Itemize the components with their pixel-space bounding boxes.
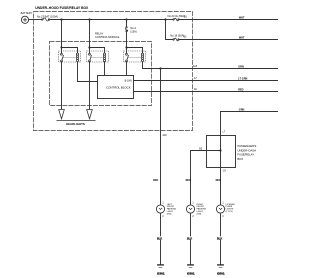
relay control module enclosure <box>50 41 152 105</box>
wire battery to fuse <box>29 18 42 20</box>
svg-text:(5W): (5W) <box>197 213 202 215</box>
svg-text:WHT: WHT <box>239 37 245 40</box>
node bus junction 2 <box>88 18 90 20</box>
lamp right front parking light <box>186 205 194 213</box>
ground G301 left <box>157 264 164 266</box>
svg-text:(15A): (15A) <box>130 30 136 34</box>
wire lamp1 to ground <box>159 213 161 264</box>
svg-text:RED: RED <box>153 179 158 182</box>
fuse No.23 BAT (100A) <box>42 19 43 20</box>
svg-text:BLK: BLK <box>157 237 162 240</box>
wire contact1 down <box>61 61 63 109</box>
label blk 2 <box>187 236 195 239</box>
svg-text:No.4: No.4 <box>130 26 136 30</box>
relay R3 box <box>124 51 146 62</box>
node passenger junction <box>219 149 221 151</box>
svg-text:CONTROL BLOCK: CONTROL BLOCK <box>106 85 131 89</box>
label blk 1 <box>157 236 165 239</box>
svg-text:PASSENGER'S: PASSENGER'S <box>237 144 256 148</box>
wire B5 to lamp2 <box>190 151 220 206</box>
svg-text:BLK: BLK <box>217 237 222 240</box>
svg-text:G301: G301 <box>157 272 165 276</box>
battery <box>21 16 28 23</box>
svg-text:G301: G301 <box>187 272 195 276</box>
wire drop fuse No.4 <box>126 19 128 27</box>
control block box <box>98 75 134 98</box>
wire A9 out <box>134 90 279 92</box>
svg-text:No.16 (50A): No.16 (50A) <box>170 34 184 38</box>
svg-text:G501: G501 <box>217 272 225 276</box>
node relay3 branch <box>125 46 127 48</box>
wire lamp3 to ground <box>219 213 221 264</box>
ground G301 mid <box>187 264 194 266</box>
svg-text:HEADLIGHTS: HEADLIGHTS <box>66 122 85 126</box>
relay R2 coil <box>105 53 106 62</box>
svg-text:BATTERY: BATTERY <box>21 11 33 15</box>
lamp license plate lights <box>216 205 224 213</box>
svg-text:UNDER–HOOD FUSE/RELAY BOX: UNDER–HOOD FUSE/RELAY BOX <box>35 6 89 10</box>
wire contact3 to control block <box>126 61 128 75</box>
wire lamp2 to ground <box>189 213 191 264</box>
under-hood fuse/relay box enclosure <box>34 11 193 130</box>
arrow headlight left <box>59 109 65 118</box>
wire A7 out <box>134 79 278 81</box>
svg-text:CONTROL MODULE: CONTROL MODULE <box>95 35 120 39</box>
wire L7 horizontal <box>221 112 279 136</box>
arrow headlight right <box>87 109 93 118</box>
lamp left front parking light <box>156 205 164 213</box>
wire main bus <box>50 18 166 20</box>
wire lamp3 drop <box>219 168 221 206</box>
relay R2 contact <box>89 53 91 55</box>
svg-text:(5W): (5W) <box>167 213 172 215</box>
passenger under-dash fuse/relay box <box>206 136 235 168</box>
fuse No.4 (15A) <box>126 27 127 28</box>
svg-text:RED: RED <box>238 89 243 92</box>
headlights bracket <box>57 119 96 121</box>
relay R1 coil <box>78 53 79 62</box>
svg-text:RED: RED <box>186 179 191 182</box>
svg-text:A18: A18 <box>163 134 168 137</box>
node bus junction 3 <box>125 18 127 20</box>
svg-text:(2 LTS): (2 LTS) <box>226 211 233 213</box>
wire IG branch down <box>166 20 174 40</box>
svg-text:FUSE/RELAY: FUSE/RELAY <box>237 153 254 157</box>
wire fuse B out right <box>179 39 278 41</box>
fuse No.16 (50A) <box>173 39 174 40</box>
wire IG out right <box>179 19 278 21</box>
svg-text:BLK: BLK <box>187 237 192 240</box>
svg-text:GRN: GRN <box>239 109 245 112</box>
relay R1 box <box>59 51 81 62</box>
node relay2 branch <box>88 46 90 48</box>
wire coil1 to control block <box>78 61 98 81</box>
wire coil2 to control block <box>104 61 106 75</box>
wire drop relay 2 <box>89 19 91 53</box>
label blk 3 <box>217 236 225 239</box>
wire coil3 to A15 out <box>143 61 279 68</box>
wire through passenger box <box>219 136 221 168</box>
svg-text:No.23 IG (50A): No.23 IG (50A) <box>168 14 186 18</box>
svg-text:A15: A15 <box>193 65 198 68</box>
svg-text:LT GRN: LT GRN <box>238 78 247 81</box>
svg-text:No.23 BAT (100A): No.23 BAT (100A) <box>37 14 58 18</box>
node relay1 branch <box>60 46 62 48</box>
fuse No.23 IG (50A) <box>166 19 174 21</box>
svg-text:GRN: GRN <box>238 66 244 69</box>
svg-text:B-CAN: B-CAN <box>125 80 132 83</box>
relay R3 coil <box>143 53 144 62</box>
relay R2 box <box>87 51 109 62</box>
wire drop relay 1 <box>61 19 63 53</box>
svg-text:UNDER–DASH: UNDER–DASH <box>237 148 256 152</box>
wire A18 down to lamp1 <box>159 69 161 206</box>
ground G501 right <box>217 264 224 266</box>
svg-text:WHT: WHT <box>239 17 245 20</box>
relay R1 contact <box>61 53 63 55</box>
wire contact2 down <box>89 61 91 109</box>
node A18 junction <box>159 67 161 69</box>
relay R3 contact <box>126 53 128 55</box>
node IG junction <box>164 18 166 20</box>
svg-text:RED: RED <box>216 179 221 182</box>
svg-text:BOX: BOX <box>237 157 243 161</box>
node bus junction 1 <box>60 18 62 20</box>
